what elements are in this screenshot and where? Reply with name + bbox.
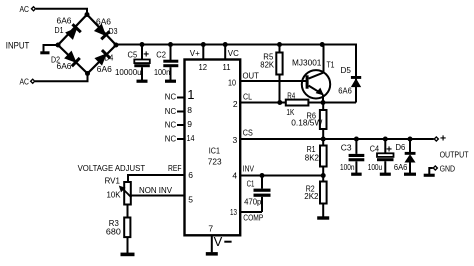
svg-text:D1: D1 <box>55 25 64 35</box>
svg-text:AC: AC <box>20 4 30 14</box>
svg-text:4: 4 <box>232 171 237 181</box>
svg-text:IC1: IC1 <box>209 146 220 156</box>
svg-text:10000u: 10000u <box>115 67 142 77</box>
svg-text:8K2: 8K2 <box>305 152 319 162</box>
svg-text:VOLTAGE ADJUST: VOLTAGE ADJUST <box>78 163 146 173</box>
svg-text:100n: 100n <box>154 67 170 77</box>
svg-text:REF: REF <box>168 163 182 173</box>
svg-text:6: 6 <box>188 170 193 180</box>
svg-text:CS: CS <box>243 128 253 138</box>
svg-text:+: + <box>143 49 149 60</box>
svg-text:470p: 470p <box>244 197 262 207</box>
svg-text:10: 10 <box>228 78 236 88</box>
svg-text:D6: D6 <box>396 142 406 152</box>
svg-text:INPUT: INPUT <box>6 41 30 51</box>
svg-text:100u: 100u <box>368 162 383 172</box>
svg-text:0.18/5W: 0.18/5W <box>291 118 322 128</box>
svg-text:680: 680 <box>106 227 121 237</box>
svg-text:OUTPUT: OUTPUT <box>440 150 469 160</box>
svg-text:7: 7 <box>208 224 213 234</box>
svg-text:INV: INV <box>243 164 255 174</box>
svg-text:2: 2 <box>233 99 238 109</box>
svg-text:2K2: 2K2 <box>304 191 318 201</box>
svg-text:T1: T1 <box>327 60 335 70</box>
svg-text:C2: C2 <box>156 49 166 59</box>
svg-text:82K: 82K <box>260 60 274 70</box>
svg-text:9: 9 <box>187 119 192 129</box>
svg-text:RV1: RV1 <box>105 175 121 185</box>
svg-text:NC: NC <box>165 106 176 116</box>
svg-text:CL: CL <box>243 92 252 102</box>
svg-text:COMP: COMP <box>243 213 263 223</box>
svg-text:5: 5 <box>188 195 193 205</box>
svg-text:NC: NC <box>165 92 176 102</box>
svg-text:NC: NC <box>165 134 176 144</box>
svg-text:V: V <box>214 234 223 249</box>
svg-text:AC: AC <box>20 76 30 86</box>
svg-text:6A6: 6A6 <box>57 61 72 71</box>
svg-text:C1: C1 <box>247 179 255 189</box>
svg-text:723: 723 <box>208 157 222 167</box>
svg-text:+: + <box>440 133 446 145</box>
svg-text:13: 13 <box>230 207 237 217</box>
svg-text:NON INV: NON INV <box>139 185 172 195</box>
svg-text:D4: D4 <box>104 52 113 62</box>
svg-text:8: 8 <box>187 105 192 115</box>
svg-text:D5: D5 <box>341 65 352 75</box>
svg-text:10K: 10K <box>107 190 121 200</box>
svg-text:OUT: OUT <box>243 71 259 81</box>
svg-text:V+: V+ <box>190 48 200 58</box>
svg-text:D3: D3 <box>109 26 118 36</box>
svg-text:C5: C5 <box>128 49 138 59</box>
svg-text:3: 3 <box>233 135 238 145</box>
svg-text:11: 11 <box>223 62 231 72</box>
svg-text:6A6: 6A6 <box>394 162 408 172</box>
svg-text:6A6: 6A6 <box>96 16 111 26</box>
svg-text:+: + <box>386 145 392 156</box>
svg-text:C3: C3 <box>341 143 352 153</box>
svg-text:R4: R4 <box>287 90 295 100</box>
svg-text:VC: VC <box>228 48 239 58</box>
svg-text:6A6: 6A6 <box>97 64 112 74</box>
svg-text:12: 12 <box>199 62 208 72</box>
svg-text:100n: 100n <box>340 162 355 172</box>
svg-text:NC: NC <box>165 120 176 130</box>
svg-text:1K: 1K <box>286 107 294 117</box>
svg-text:14: 14 <box>187 133 195 143</box>
svg-text:GND: GND <box>440 163 456 173</box>
svg-text:MJ3001: MJ3001 <box>292 58 322 68</box>
svg-text:6A6: 6A6 <box>338 86 352 96</box>
svg-text:C4: C4 <box>370 144 380 154</box>
svg-text:1: 1 <box>187 87 194 102</box>
